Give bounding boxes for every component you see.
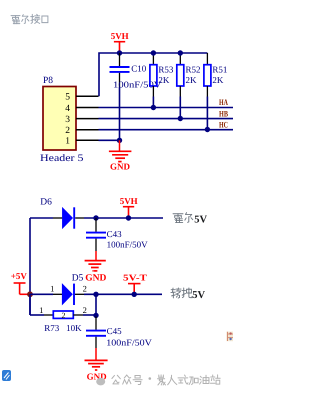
svg-text:2: 2 [62,311,66,320]
power symbol 5VH (top) [111,31,129,53]
power symbol 5V-T [123,273,147,295]
watermark mark 每 (right edge, clipped) [226,332,233,342]
svg-text:2: 2 [83,284,87,294]
svg-text:HB: HB [219,108,228,118]
wire: D6 row left segment [30,217,53,219]
svg-text:C45: C45 [107,326,123,336]
svg-text:HA: HA [219,97,229,107]
wire: C10 to GND junction [119,87,121,140]
capacitor C45 100nF/50V [86,317,152,349]
wire: riser from D5 row to C45 [95,294,97,316]
svg-text:D5: D5 [72,273,84,283]
node: pin1/C10/GND junction [117,138,122,143]
svg-text:GND: GND [110,162,131,172]
resistor R52 2K [177,53,201,119]
wire: D5 row left segment [30,293,53,295]
node: 5V-T junction [132,292,137,297]
node: rail junction at C10/5VH [117,50,122,55]
svg-text:D6: D6 [40,198,52,208]
svg-text:100nF/50V: 100nF/50V [107,239,149,249]
node: R53 bottom junction [151,105,156,110]
wire: pin5 riser and top rail [99,53,207,96]
watermark text 公众号·嵌入式加油站 [112,375,142,385]
svg-text:100nF/50V: 100nF/50V [106,338,152,348]
wire: R73 left [30,314,44,316]
power symbol 5VH (lower) [120,196,138,218]
title text 霍尔接口 (Hall interface) [11,14,48,23]
resistor R53 2K [150,53,174,108]
wire: left vertical bus (D6 anode to +5V to R73) [29,218,31,315]
wire pin1 to GND [99,139,120,141]
wire: down to R73 row [29,294,31,315]
node: rail junction R52 [178,50,183,55]
svg-text:1: 1 [39,305,43,315]
node: R52 bottom junction [178,116,183,121]
node: R51 bottom junction [205,127,210,132]
diode D6 [53,207,84,228]
svg-text:R53: R53 [158,65,174,75]
wire net HA [99,107,234,109]
svg-text:P8: P8 [43,76,53,86]
node: rail junction R53 [151,50,156,55]
wire net HB [99,118,234,120]
node: C45/R73 riser junction [93,292,98,297]
resistor R51 2K [204,53,228,130]
capacitor C10 100nF/50V [110,53,163,90]
svg-text:2K: 2K [212,75,224,85]
svg-text:C43: C43 [107,229,123,239]
svg-text:4: 4 [65,104,70,114]
watermark icon (gray circle) [96,378,105,386]
svg-text:2: 2 [83,305,87,315]
label 霍尔5V (hall 5V) [173,213,193,223]
svg-text:C10: C10 [131,63,147,73]
node: 5VH junction [126,215,131,220]
svg-text:R73: R73 [44,323,60,333]
ground symbol (C43) [85,251,106,271]
connector P8 Header 5 [40,76,84,164]
svg-text:1: 1 [50,284,54,294]
svg-text:2: 2 [65,126,70,136]
watermark blue square (bottom left) [2,370,11,381]
svg-text:5VH: 5VH [120,196,138,206]
resistor R73 10K [44,311,83,333]
node: +5V 4-way junction (dark red) [27,291,33,297]
svg-text:R52: R52 [186,65,201,75]
node: C43 junction [93,215,98,220]
svg-text:5: 5 [65,93,70,103]
svg-text:5V: 5V [194,214,207,225]
power symbol +5V [11,271,30,294]
wire: D5 cathode to 转把5V [84,293,162,295]
svg-text:+5V: +5V [11,271,28,281]
svg-text:R51: R51 [212,65,227,75]
svg-text:5VH: 5VH [111,31,129,41]
svg-text:2K: 2K [158,75,170,85]
capacitor C43 100nF/50V [86,218,148,251]
node: R73/C45 junction [93,313,98,318]
wire: D6 cathode to hall-5V [84,217,163,219]
diode D5 [53,284,84,305]
ground symbol (C45) [85,348,108,370]
wire: R73 right to junction [83,314,96,316]
svg-text:1: 1 [65,137,70,147]
svg-text:5V: 5V [192,290,205,301]
svg-text:5V-T: 5V-T [123,273,147,283]
svg-text:Header 5: Header 5 [40,153,84,164]
svg-text:GND: GND [85,273,106,283]
ground symbol GND (header) [109,140,131,161]
wire net HC [99,129,234,131]
svg-text:10K: 10K [66,323,82,333]
svg-text:2K: 2K [186,75,198,85]
svg-text:HC: HC [219,119,228,129]
label 转把5V (throttle 5V) [171,288,192,298]
svg-text:100nF/50V: 100nF/50V [113,80,162,90]
svg-text:3: 3 [65,115,70,125]
